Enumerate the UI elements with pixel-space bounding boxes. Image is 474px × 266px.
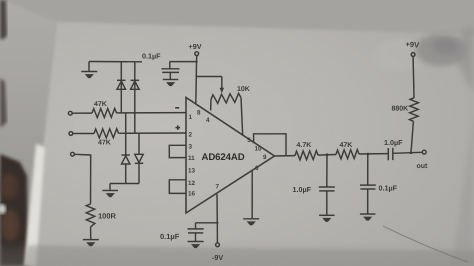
ground [360,214,376,221]
ground [163,80,179,87]
resistor R5 4.7K [295,151,318,160]
ground [319,215,335,222]
wire node A down [326,155,328,187]
bottom shadow band [0,240,474,266]
dark bottom-left corner [0,154,28,266]
hair on paper bottom right [383,226,468,262]
ground [81,62,97,79]
wire +9V down to pin 8 [196,56,197,104]
wire to pin 2 [119,132,187,134]
white dot left edge [0,204,6,214]
wire [318,154,336,157]
ground [243,219,259,226]
resistor R6 47K [336,150,359,159]
terminal [195,52,199,56]
diode D3 [122,155,130,164]
input terminal 1 [68,111,72,115]
pin 2 [189,132,193,139]
pin 4 [206,117,210,124]
capacitor C4 0.1uF [360,185,376,214]
resistor R4 100R [86,204,95,227]
gain jumper pins 12-16 [169,180,186,194]
wire [138,163,140,183]
gain jumper pins 3-11 [169,145,186,157]
pin 7 [216,184,220,191]
pin 11 [188,155,195,162]
wire to pin 1 [117,112,187,114]
diode D4 [135,154,143,163]
label 47K [340,142,353,149]
pin 1 [189,114,193,121]
wire cap to out [393,152,422,153]
label out [417,163,429,170]
ground [188,242,204,249]
label 10K [237,86,250,93]
resistor R1 47K [92,108,117,117]
top desk band shading [0,0,474,33]
dark left edge band top [0,0,7,40]
input terminal 3 [71,152,75,156]
capacitor C3 1.0uF [319,187,335,215]
wire branch to trimmer wiper [196,77,222,90]
wire [359,153,388,155]
output terminal [422,150,426,154]
input terminal 2 [69,132,73,136]
resistor R7 880K [409,98,418,122]
wire [73,133,94,135]
label AD624AD [202,152,245,163]
dark left edge band mid [0,78,7,128]
pin 5 [247,137,251,144]
output wire from pin 9 [275,155,296,157]
schematic ink [68,40,428,262]
pin 9 [263,154,267,161]
left desk strip [0,0,56,266]
pin 6 [255,165,259,172]
resistor R2 47K [94,129,119,138]
pin 10 [255,146,263,153]
wire [75,154,91,204]
ground [103,191,119,198]
label 4.7K [297,142,312,149]
junction [195,60,197,62]
label 1.0uF [293,185,312,194]
wire clamp ground bus [110,184,139,191]
label 47K [94,101,107,108]
+9V supply terminal (right) [411,53,415,57]
-9V supply terminal [216,243,220,247]
wire node B down [367,154,369,185]
right edge darkening [452,110,474,266]
wire 880K bottom [411,121,413,152]
plus sign [176,125,181,130]
wiper arrow [220,88,224,94]
wire branch to C2 [196,223,218,229]
wire [90,227,92,240]
label 100R [98,212,117,221]
label 0.1uF [160,232,180,241]
label 1.0uF [384,138,403,147]
wire clamp column from input 2 [138,134,140,155]
diode D1 [117,80,126,89]
junction 880K [410,151,413,154]
trimmer R3 10K [211,93,243,135]
wire +9V rail to C1 [170,61,197,63]
capacitor C1 [162,62,180,80]
diode D2 [131,80,140,89]
label 880K [392,106,409,113]
pin 16 [188,191,196,198]
wire pin 7 down [216,194,218,243]
dark smoke cloud top right [415,34,467,66]
capacitor C1 0.1uF label [142,52,161,61]
capacitor C5 1.0uF coupling [388,148,393,161]
op-amp U1 AD624AD [186,98,275,214]
light patch around +9V top right [374,39,426,71]
junction [216,222,218,224]
pin 13 [188,168,196,175]
pin 3 [189,144,193,151]
pin 12 [188,180,196,187]
wire pin 6 to ground [251,171,253,218]
wire [125,164,127,184]
ground rail top-left [89,61,142,63]
node A junction [326,153,329,156]
label 47K [98,140,111,147]
+9V supply terminal (left) [189,42,202,51]
capacitor C2 0.1uF [188,229,204,241]
wire diode column to input 1 [120,62,122,113]
wire diode column to input 2 [134,62,136,134]
ground [83,240,99,247]
wire 880K to +9V [412,57,415,98]
red-brown spots bottom-left [0,173,19,241]
minus sign [175,107,179,109]
wire clamp column from input 1 [125,113,127,156]
bright paper-edge strip [24,144,45,266]
pin 8 [197,110,201,117]
wire [72,112,92,114]
label +9V [405,40,420,50]
label -9V [212,253,223,262]
node B junction [367,153,370,156]
paper curl shadow step [24,246,474,266]
label 0.1uF [379,184,398,193]
sense loop pin10 to output [254,134,286,157]
